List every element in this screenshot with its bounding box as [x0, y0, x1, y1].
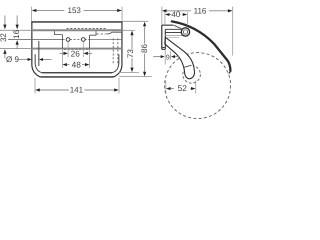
svg-text:32: 32 [0, 33, 8, 42]
wall extension line top [161, 7, 163, 25]
141 right extension [118, 78, 120, 94]
bar top extension right [122, 20, 148, 22]
plate bottom line right part [90, 39, 122, 41]
141 left extension [34, 78, 36, 94]
plate bottom line left part [8, 39, 62, 41]
hidden hinge dashes right [112, 38, 114, 64]
plate right edge extension down [89, 49, 91, 68]
svg-text:86: 86 [140, 44, 149, 53]
hidden dashed line above bar bottom [67, 27, 108, 29]
52 left extension [165, 81, 167, 94]
lid hinge line right dashed [97, 33, 107, 35]
arm gray line 1 [165, 35, 183, 37]
dim 16 [12, 16, 21, 50]
wall plate front edge [164, 29, 166, 49]
paper roll dashed circle [165, 53, 231, 119]
52 right extension [195, 81, 197, 94]
technical dimension drawing: toilet roll holder, front + side view [0, 0, 236, 120]
svg-text:40: 40 [171, 10, 180, 19]
cover inner right edge [112, 54, 119, 72]
arm gray line 2 [166, 37, 179, 39]
dim 116 [162, 6, 233, 15]
bar circle inner [183, 30, 187, 34]
plate bottom line dashed mid part [62, 39, 89, 41]
bracket step left [55, 31, 63, 34]
bar bottom thick gray line [32, 29, 122, 31]
svg-text:48: 48 [72, 59, 82, 69]
dim 32 [0, 16, 8, 59]
bar bottom extension line to left margin [0, 29, 32, 31]
plate bottom cap upper [162, 46, 166, 48]
roll core dashed circle [183, 66, 201, 84]
plate bottom cap lower [162, 48, 166, 50]
bar bottom extension right [122, 29, 135, 31]
bar right end + cover outer right edge [114, 21, 122, 77]
40 right extension [187, 12, 189, 25]
plate top edge [162, 24, 173, 26]
svg-text:52: 52 [178, 83, 188, 93]
dim 48 [63, 59, 90, 69]
cover top thick gray line [32, 48, 122, 50]
bar left end + cover outer left edge [32, 21, 40, 77]
svg-text:116: 116 [194, 6, 207, 15]
bar top edge [31, 21, 122, 23]
svg-text:Ø 9: Ø 9 [6, 55, 19, 64]
lid inner line [174, 25, 182, 29]
svg-text:153: 153 [68, 6, 82, 15]
wall plate back edge [161, 25, 163, 49]
lid tip hook [229, 71, 231, 74]
svg-text:16: 16 [12, 29, 21, 38]
screw hole left [66, 38, 70, 42]
post inner edge (left) [38, 41, 40, 66]
dim 40 [165, 10, 187, 19]
lid curved top [172, 21, 231, 71]
arm line 1 [165, 28, 181, 30]
cover inner left edge [35, 54, 42, 72]
spindle outline (white filled, tapered, rounded end) [165, 37, 195, 79]
153 right extension [121, 7, 123, 21]
dim 52 [166, 83, 196, 93]
bracket step right [90, 31, 97, 35]
spindle joint tick [184, 65, 191, 67]
svg-text:73: 73 [126, 49, 135, 58]
lid hinge line right solid curve up [107, 32, 113, 34]
lid hinge line under bar right [112, 31, 122, 33]
26 left extension [67, 42, 69, 58]
cover top extension to left margin [0, 48, 32, 50]
plate right edge [89, 35, 91, 48]
svg-text:9: 9 [166, 54, 170, 61]
116 right extension [232, 7, 234, 56]
dim 141 [35, 86, 119, 95]
9 right extension [169, 51, 171, 60]
screw hole right [81, 38, 85, 42]
cover inner bottom extension right [119, 71, 139, 73]
svg-text:26: 26 [71, 48, 81, 58]
cover bottom inner line [42, 72, 112, 74]
hidden dashed line below cover top [64, 48, 90, 50]
cover outer bottom extension right [119, 76, 152, 78]
dim 9 [153, 54, 179, 61]
9 left extension (plate front down) [164, 50, 166, 65]
dim 153 [32, 6, 122, 15]
plate left edge extension down [61, 49, 63, 68]
dim 86 [140, 22, 149, 77]
svg-text:141: 141 [70, 86, 84, 95]
cover bottom outer line [40, 76, 113, 78]
dim 73 [126, 31, 135, 73]
dim 26 [59, 48, 92, 58]
plate front extension up (40 dim) [164, 12, 166, 25]
dim diameter 9 [6, 55, 51, 64]
plate left edge [61, 35, 63, 49]
26 right extension [82, 42, 84, 58]
153 left extension [31, 7, 33, 21]
arm line 2 [165, 31, 181, 33]
bar cross-section circle [181, 28, 189, 36]
